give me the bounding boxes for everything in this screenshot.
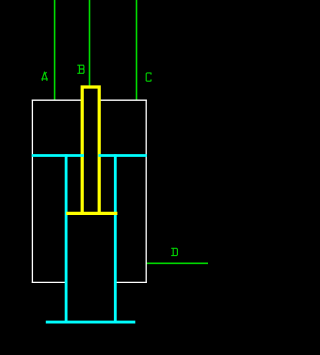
cylinder body: white rectangle outline [32, 100, 147, 283]
label C [146, 73, 151, 81]
wire: leader line A (vertical green) [54, 0, 56, 100]
cyan gland top line (right segment) [98, 154, 146, 157]
cyan cylinder barrel left wall [65, 154, 68, 322]
label B [78, 65, 84, 73]
wire: leader line D (horizontal green) [146, 262, 208, 264]
label D [172, 248, 178, 255]
yellow piston rod (open rectangle, black fill) [82, 87, 99, 215]
right edge [145, 100, 147, 283]
left edge [31, 100, 33, 283]
yellow piston head bar [66, 212, 117, 215]
bottom edge (right segment) [115, 281, 146, 283]
cyan gland top line (left segment) [32, 154, 84, 157]
cyan cylinder barrel right wall [114, 154, 117, 322]
label A [42, 72, 47, 80]
bottom edge (left segment) [32, 281, 66, 283]
wire: leader line C (vertical green) [136, 0, 138, 100]
wire: leader line B (vertical green) [89, 0, 91, 87]
cyan base line [46, 321, 136, 324]
top edge [32, 99, 147, 101]
